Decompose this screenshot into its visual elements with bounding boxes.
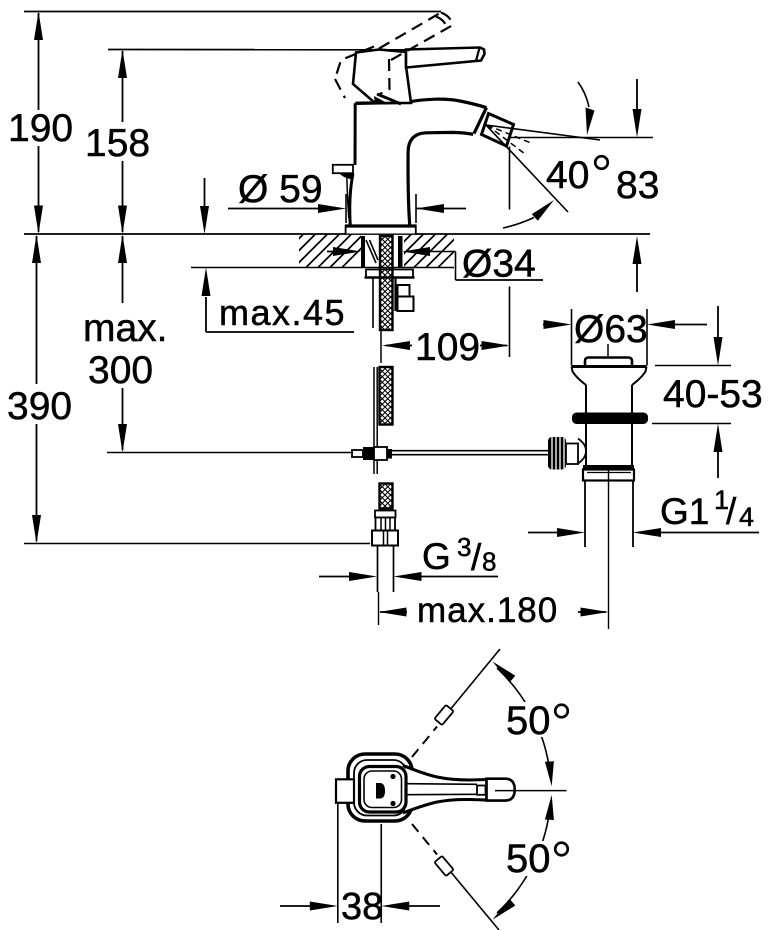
body outline [354, 103, 357, 165]
dimension 38 [280, 804, 440, 929]
svg-text:4: 4 [739, 502, 754, 532]
handle lever (solid) [406, 48, 485, 68]
deck hatching left block [270, 234, 376, 268]
svg-text:158: 158 [85, 122, 150, 165]
swing arc upper with arrows [493, 662, 554, 787]
svg-text:Ø63: Ø63 [574, 308, 648, 351]
escutcheon second ring [354, 760, 407, 816]
centerline tick above knob [607, 344, 609, 356]
dimension max.300 [83, 235, 168, 453]
svg-text:50: 50 [506, 837, 551, 881]
rubber gasket [572, 413, 648, 425]
spray fan lines (40deg) [486, 82, 600, 228]
svg-text:50: 50 [506, 699, 551, 743]
dimension 109 (spout projection) [382, 147, 510, 370]
escutcheon outer ring [348, 754, 412, 821]
centerline [608, 467, 610, 629]
pop-up waste valve assembly [548, 344, 648, 629]
svg-text:G: G [422, 536, 451, 577]
rod centerline segment [380, 330, 382, 363]
handle square inner line [364, 771, 402, 808]
dimension 83 (spout height) [508, 79, 659, 292]
dimension 40deg (spray angle) label [546, 154, 608, 197]
fan line lower [486, 125, 568, 212]
base plate [346, 226, 416, 234]
screw dot upper [390, 774, 395, 779]
screw dot lower [390, 801, 395, 806]
handle raised position (dashed) [335, 13, 452, 99]
svg-text:max.45: max.45 [219, 292, 346, 333]
svg-text:max.: max. [83, 307, 168, 350]
svg-text:Ø34: Ø34 [462, 243, 536, 286]
dimension 158 [85, 50, 150, 235]
dimension 390 [7, 235, 72, 544]
svg-text:/: / [726, 491, 737, 532]
tailpipe [584, 481, 586, 548]
dimension max.45 (deck thickness) [200, 178, 354, 333]
pop-up rod T-junction [352, 447, 392, 460]
fan line upper [486, 125, 600, 140]
dimension G1 1/4 (waste thread) [528, 485, 759, 537]
centerline right [495, 790, 567, 792]
handle swung down 50deg (dashed) [412, 824, 499, 930]
label 50deg lower [503, 837, 573, 881]
svg-text:390: 390 [7, 385, 72, 428]
body upper [585, 385, 587, 413]
dimension 40-53 (pop-up body depth) [652, 306, 763, 478]
arc arrow upper [578, 82, 589, 107]
handle square (plan) [360, 767, 407, 813]
dimension 190 [8, 12, 73, 235]
handle swung up 50deg (dashed) [412, 649, 500, 757]
wire deck line (counter top) [24, 233, 650, 235]
aerator block [482, 114, 514, 147]
rod knurled knob [548, 437, 566, 470]
left tab [333, 165, 353, 173]
body lower [585, 424, 587, 465]
mounting nut [366, 270, 413, 278]
wall tab [336, 779, 354, 803]
faucet body (side view) [333, 99, 514, 233]
body bottom [583, 465, 634, 470]
dimension max.180 [379, 591, 609, 630]
braided supply hose (upper part) [380, 236, 393, 330]
wire 158 extension line (top of body handle) [108, 49, 441, 51]
braided hose lower section [380, 484, 393, 509]
horizontal pop-up rod to waste valve [392, 451, 548, 455]
braided hose middle section + pop-up rod [374, 367, 393, 474]
svg-text:max.180: max.180 [417, 591, 558, 630]
svg-text:G1: G1 [660, 491, 709, 532]
svg-text:300: 300 [88, 349, 153, 392]
collar [583, 470, 634, 481]
dimension Ø34 (hole in deck) [327, 243, 543, 286]
swing arc lower with arrows [493, 795, 554, 920]
svg-text:83: 83 [616, 164, 659, 207]
svg-text:/: / [471, 537, 482, 578]
threaded shank slant lines [366, 240, 376, 263]
wire max.300 bottom extension line (pop-up rod level) [107, 452, 352, 454]
hose end fitting [372, 511, 398, 593]
lever grip (plan) [487, 779, 515, 801]
hose centerline below [378, 592, 380, 625]
hole edges [361, 236, 365, 268]
svg-text:40: 40 [546, 154, 589, 197]
wire top extension line (190 reference, top of handle) [24, 11, 441, 13]
rod stem into body [566, 444, 578, 465]
lever neck (plan) [403, 766, 487, 814]
label 50deg upper [503, 699, 573, 743]
deck hatching right block [378, 234, 472, 268]
wire 390 bottom extension line [24, 543, 370, 545]
wire deck bottom line (max.45 reference) [191, 267, 454, 269]
svg-text:109: 109 [415, 326, 480, 369]
dimension G3/8 (supply hose thread) [319, 532, 498, 581]
svg-text:40-53: 40-53 [663, 373, 763, 416]
dimension Ø59 (base diameter) [228, 168, 466, 223]
svg-text:Ø 59: Ø 59 [238, 168, 323, 211]
svg-text:190: 190 [8, 107, 73, 150]
D-shaped mark [376, 783, 385, 799]
fan dashed rays [487, 125, 531, 143]
arc arrow lower [503, 218, 534, 229]
rod left line [372, 278, 374, 328]
svg-text:38: 38 [341, 886, 383, 928]
shank and hole below deck [361, 236, 415, 363]
guide bracket right [398, 285, 410, 297]
knob [585, 358, 632, 366]
handle block (solid) [353, 50, 411, 105]
hex nut G3/8 [372, 531, 398, 546]
svg-text:8: 8 [482, 547, 496, 577]
svg-text:3: 3 [457, 532, 471, 562]
dimension Ø63 (pop-up flange) [543, 308, 707, 366]
flange [572, 365, 647, 368]
hose tube [377, 546, 379, 593]
